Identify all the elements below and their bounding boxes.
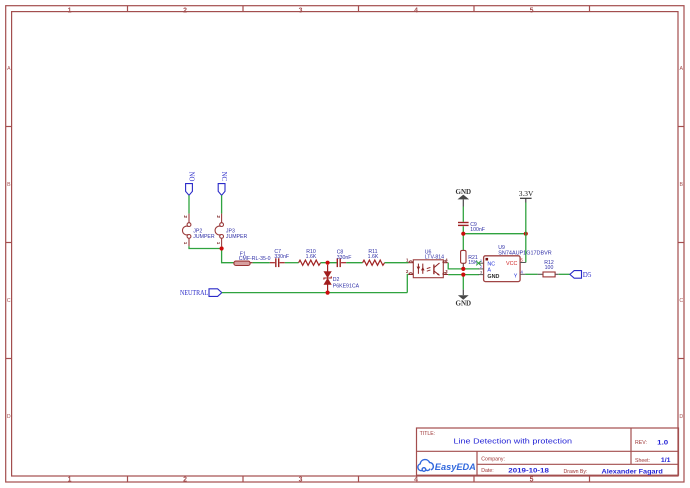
svg-text:D: D bbox=[679, 414, 683, 420]
wire NEUTRAL run bbox=[222, 275, 409, 293]
svg-text:2: 2 bbox=[183, 477, 187, 484]
svg-text:1: 1 bbox=[68, 7, 72, 14]
svg-text:Drawn By:: Drawn By: bbox=[564, 469, 588, 475]
EasyEDA logo bbox=[418, 460, 476, 474]
svg-text:330nF: 330nF bbox=[274, 254, 289, 260]
svg-text:CMF-RL-35-0: CMF-RL-35-0 bbox=[239, 256, 271, 262]
svg-text:1: 1 bbox=[183, 242, 188, 245]
svg-text:A: A bbox=[487, 267, 491, 273]
wire R12 to D5 bbox=[559, 273, 570, 275]
svg-text:EasyEDA: EasyEDA bbox=[435, 462, 476, 473]
svg-text:VCC: VCC bbox=[506, 261, 517, 267]
resistor R21 bbox=[461, 250, 478, 267]
svg-text:5: 5 bbox=[530, 7, 534, 14]
jumper JP3 bbox=[215, 214, 223, 247]
svg-text:A: A bbox=[679, 66, 683, 72]
resistor R11 bbox=[363, 249, 385, 265]
junction R10/C8/D2 node bbox=[326, 261, 330, 265]
svg-text:TITLE:: TITLE: bbox=[420, 431, 436, 437]
svg-text:B: B bbox=[7, 182, 11, 188]
svg-text:NO: NO bbox=[188, 172, 195, 182]
jumper JP2 bbox=[182, 214, 190, 247]
wire 3.3V down to VCC bbox=[525, 203, 527, 263]
svg-text:2: 2 bbox=[183, 215, 188, 218]
resistor R10 bbox=[299, 249, 321, 265]
svg-text:100: 100 bbox=[545, 265, 554, 271]
svg-text:5: 5 bbox=[530, 477, 534, 484]
junction D2 bottom bbox=[326, 291, 330, 295]
junction C9/R21 rail bbox=[461, 232, 465, 236]
net flag NEUTRAL bbox=[180, 289, 222, 297]
power flag 3.3V bbox=[519, 189, 534, 203]
wire NC to JP3 bbox=[221, 195, 223, 213]
svg-text:A: A bbox=[7, 66, 11, 72]
wire Y to R12 bbox=[525, 273, 538, 275]
wire JP2/JP3 bottoms to junction bbox=[189, 246, 234, 262]
wire GND to C9 bbox=[462, 207, 464, 222]
svg-text:1.6K: 1.6K bbox=[306, 254, 317, 260]
svg-text:P6KE91CA: P6KE91CA bbox=[333, 284, 360, 290]
svg-text:4: 4 bbox=[414, 477, 418, 484]
wire C8 to R11 bbox=[346, 262, 362, 264]
wire R11 to U6 pin1 bbox=[385, 262, 409, 264]
svg-text:1: 1 bbox=[216, 242, 221, 245]
svg-text:1/1: 1/1 bbox=[661, 457, 671, 464]
wire NO to JP2 bbox=[188, 195, 190, 213]
svg-text:1.0: 1.0 bbox=[657, 439, 669, 446]
svg-text:3: 3 bbox=[299, 477, 303, 484]
ground GND upper bbox=[456, 188, 472, 207]
svg-text:NC: NC bbox=[220, 172, 227, 182]
wire U6 pin3 to GND rail bbox=[448, 274, 479, 276]
wire R10 to C8 bbox=[321, 262, 337, 264]
net flag NO bbox=[186, 172, 195, 196]
svg-text:Y: Y bbox=[514, 273, 518, 279]
svg-text:D: D bbox=[7, 414, 11, 420]
svg-text:1.6K: 1.6K bbox=[368, 254, 379, 260]
svg-text:REV:: REV: bbox=[635, 440, 647, 446]
ground GND lower bbox=[456, 290, 472, 308]
svg-text:2: 2 bbox=[183, 7, 187, 14]
title block bbox=[417, 428, 679, 475]
wire rail to 3.3V bbox=[463, 233, 526, 235]
junction at JP3 bottom bbox=[220, 246, 224, 250]
optocoupler U6 LTV-814 bbox=[406, 249, 448, 277]
wire C7 to R10 bbox=[285, 262, 299, 264]
svg-text:SN74AUP1G17DBVR: SN74AUP1G17DBVR bbox=[498, 250, 552, 256]
svg-text:100nF: 100nF bbox=[470, 227, 485, 233]
junction 3.3V/VCC bbox=[524, 232, 528, 236]
wire F1 to C7 bbox=[253, 262, 270, 264]
capacitor C8 bbox=[337, 250, 352, 268]
svg-text:3: 3 bbox=[299, 7, 303, 14]
wire C9 to R21 top / 3.3V rail bbox=[462, 226, 464, 250]
resistor R12 bbox=[538, 260, 559, 277]
svg-text:Line Detection with protection: Line Detection with protection bbox=[454, 437, 573, 446]
net flag D5 bbox=[570, 271, 592, 280]
fuse F1 bbox=[234, 251, 271, 265]
wire U6 pin4 jog to node A bbox=[448, 263, 479, 269]
svg-text:JUMPER: JUMPER bbox=[226, 234, 248, 240]
svg-text:Alexander Fagard: Alexander Fagard bbox=[602, 468, 663, 475]
svg-text:D2: D2 bbox=[333, 277, 340, 283]
buffer U9 SN74AUP1G17DBVR bbox=[479, 245, 552, 281]
svg-text:LTV-814: LTV-814 bbox=[425, 255, 444, 261]
svg-text:330nF: 330nF bbox=[337, 255, 352, 261]
junction GND rail bbox=[461, 273, 465, 277]
svg-text:3: 3 bbox=[480, 271, 482, 275]
svg-text:3.3V: 3.3V bbox=[519, 189, 534, 198]
svg-text:Date:: Date: bbox=[481, 468, 493, 474]
capacitor C9 bbox=[458, 222, 485, 233]
svg-text:C: C bbox=[679, 298, 683, 304]
svg-text:1: 1 bbox=[68, 477, 72, 484]
no-connect X on U9 NC pin bbox=[476, 261, 481, 265]
svg-text:Company:: Company: bbox=[481, 457, 505, 463]
junction node A / R21 bottom bbox=[461, 267, 465, 271]
wire GND rail down bbox=[462, 275, 464, 290]
svg-text:JUMPER: JUMPER bbox=[193, 234, 215, 240]
svg-text:4: 4 bbox=[414, 7, 418, 14]
svg-text:Sheet:: Sheet: bbox=[635, 458, 650, 464]
TVS diode D2 P6KE91CA bbox=[324, 265, 360, 293]
svg-text:2: 2 bbox=[216, 215, 221, 218]
svg-text:B: B bbox=[679, 182, 683, 188]
net flag NC bbox=[218, 172, 227, 196]
svg-text:2019-10-18: 2019-10-18 bbox=[508, 467, 549, 474]
capacitor C7 bbox=[270, 249, 289, 267]
svg-text:NEUTRAL: NEUTRAL bbox=[180, 289, 208, 297]
svg-text:GND: GND bbox=[456, 299, 472, 307]
svg-text:D5: D5 bbox=[583, 271, 592, 279]
svg-text:C: C bbox=[7, 298, 11, 304]
svg-text:GND: GND bbox=[487, 274, 499, 280]
